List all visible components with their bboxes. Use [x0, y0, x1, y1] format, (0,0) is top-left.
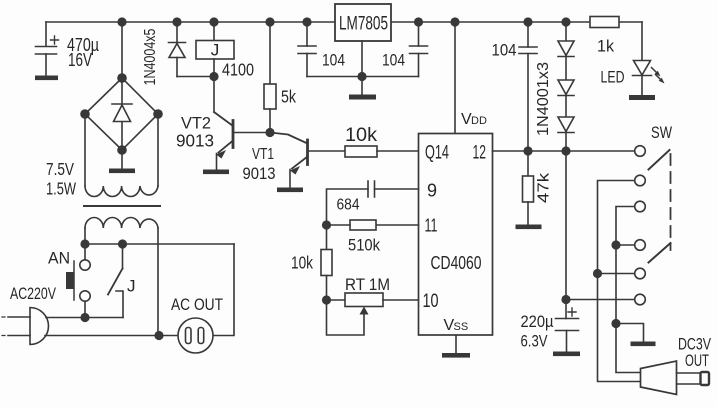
svg-text:220µ: 220µ — [521, 312, 554, 331]
svg-text:J: J — [127, 277, 136, 296]
node 220u junction — [561, 295, 570, 304]
ground IC — [455, 335, 457, 353]
switch linkage dashed — [670, 154, 672, 250]
node AN bottom — [80, 313, 89, 322]
node rail cap1 — [302, 17, 311, 26]
svg-text:1N4004x5: 1N4004x5 — [142, 29, 159, 86]
svg-text:CD4060: CD4060 — [431, 252, 482, 273]
svg-text:47k: 47k — [536, 172, 553, 203]
wire diode chain to 220u — [565, 151, 567, 300]
diodes 1N4001x3 — [535, 22, 574, 151]
node rail cap3 — [523, 17, 532, 26]
node rail 5k junction — [265, 17, 274, 26]
ground regulator — [361, 77, 363, 95]
node 47k junction — [523, 146, 532, 155]
capacitor 104 #1 — [298, 22, 345, 77]
pushbutton AN — [48, 244, 90, 318]
svg-text:AC220V: AC220V — [10, 285, 56, 303]
transistor VT2 9013 — [176, 112, 270, 174]
wire VDD — [454, 22, 456, 134]
wire cap bus — [307, 76, 419, 78]
resistor 5k — [264, 22, 296, 133]
capacitor 684 — [327, 181, 419, 225]
node rail-bridge junction — [117, 17, 126, 26]
resistor 10k base — [345, 125, 419, 157]
svg-text:104: 104 — [322, 52, 345, 70]
relay coil J — [196, 22, 254, 80]
wire to VT2 collector — [213, 77, 215, 113]
node c4 junction — [611, 240, 620, 249]
svg-text:J: J — [211, 41, 220, 60]
resistor 47k — [516, 151, 553, 229]
svg-text:1k: 1k — [597, 37, 614, 56]
node relay coil bottom — [209, 72, 218, 81]
wire SW c2 net — [598, 181, 641, 382]
svg-text:10k: 10k — [291, 253, 313, 273]
node socket branch — [154, 331, 163, 340]
ground bridge — [121, 150, 123, 168]
transformer T1 primary — [85, 218, 158, 336]
capacitor 104 #2 — [382, 22, 428, 77]
svg-text:1N4001x3: 1N4001x3 — [535, 62, 552, 136]
svg-text:5k: 5k — [281, 87, 296, 107]
resistor 10k osc — [291, 225, 332, 300]
node rail cap2 — [414, 17, 423, 26]
node ground tap — [611, 319, 620, 328]
wire rail to bridge — [121, 22, 123, 78]
node pot junction — [322, 295, 331, 304]
svg-text:Q14: Q14 — [425, 143, 449, 164]
svg-text:SS: SS — [454, 321, 469, 333]
bridge rectifier — [80, 73, 163, 155]
wire SW c3 net — [616, 207, 641, 373]
relay contact J — [108, 244, 136, 318]
svg-text:9: 9 — [427, 181, 437, 201]
node VT2 base junction — [265, 128, 274, 137]
capacitor C1 470u 16V — [35, 22, 99, 80]
svg-text:9013: 9013 — [243, 165, 276, 183]
node rail VDD — [450, 17, 459, 26]
svg-text:VT1: VT1 — [252, 146, 274, 163]
node primary left — [80, 239, 89, 248]
svg-text:12: 12 — [473, 143, 487, 164]
resistor 510k — [327, 220, 419, 255]
capacitor 220u 6.3V — [521, 300, 581, 357]
diode 1N4004x5 — [142, 22, 186, 86]
svg-text:10: 10 — [423, 291, 439, 312]
wire AN to J bottom — [85, 317, 123, 319]
svg-text:LED: LED — [601, 69, 625, 87]
wire primary bus — [85, 243, 234, 245]
transistor VT1 9013 — [243, 133, 346, 193]
svg-text:104: 104 — [492, 41, 517, 60]
svg-text:OUT: OUT — [685, 351, 709, 370]
plug DC3V OUT — [641, 335, 712, 395]
wire top rail right — [391, 21, 590, 23]
transformer core — [84, 205, 160, 207]
svg-text:10k: 10k — [345, 125, 378, 146]
svg-text:684: 684 — [337, 197, 360, 214]
svg-text:4100: 4100 — [222, 60, 254, 80]
socket AC OUT — [171, 295, 223, 353]
svg-text:510k: 510k — [348, 237, 381, 255]
wire top rail left — [46, 21, 335, 23]
plug AC220V — [2, 285, 56, 345]
wire top rail far right — [619, 21, 642, 23]
svg-text:DD: DD — [471, 115, 487, 127]
switch blade bottom — [649, 243, 671, 263]
ground tap wire — [616, 324, 644, 342]
node diode chain junction — [561, 146, 570, 155]
svg-text:SW: SW — [651, 124, 672, 142]
svg-text:AN: AN — [48, 250, 70, 268]
wire right AC branch — [213, 244, 234, 336]
resistor 1k — [590, 17, 619, 56]
node osc junction — [322, 220, 331, 229]
potentiometer RT 1M — [327, 276, 419, 335]
wire to SW c6 — [566, 299, 635, 301]
node rail diode junction — [172, 17, 181, 26]
wire diode to relay coil — [177, 76, 214, 78]
svg-text:104: 104 — [382, 52, 405, 70]
svg-text:AC OUT: AC OUT — [171, 295, 223, 314]
capacitor 104 #3 — [492, 22, 538, 151]
regulator U2 LM7805 — [335, 4, 391, 77]
wire SW c5 — [598, 273, 635, 275]
svg-text:7.5V: 7.5V — [46, 159, 74, 179]
switch SW contacts — [635, 124, 673, 305]
node primary J branch — [118, 239, 127, 248]
svg-text:11: 11 — [425, 216, 438, 236]
node rail diode chain — [561, 17, 570, 26]
node c5 junction — [593, 269, 602, 278]
svg-text:1.5W: 1.5W — [46, 179, 76, 199]
svg-text:16V: 16V — [68, 50, 92, 70]
wire plug to AN — [46, 317, 85, 319]
node regulator gnd — [357, 72, 366, 81]
wire plug to socket — [45, 335, 178, 337]
svg-text:RT 1M: RT 1M — [345, 276, 390, 294]
LED D5 — [601, 22, 665, 100]
svg-text:LM7805: LM7805 — [339, 14, 388, 35]
node rail relay junction — [209, 17, 218, 26]
svg-text:9013: 9013 — [176, 131, 214, 151]
wire pin12 to SW — [493, 150, 635, 152]
switch blade top — [649, 150, 670, 170]
svg-text:6.3V: 6.3V — [521, 332, 549, 351]
IC U1 CD4060 — [419, 111, 493, 335]
transformer T1 secondary — [46, 114, 158, 199]
wire SW c4 — [616, 244, 635, 246]
